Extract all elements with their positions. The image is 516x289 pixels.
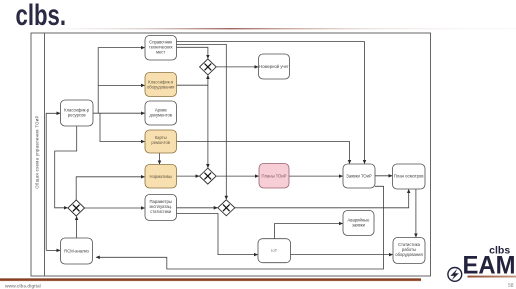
svg-text:оборудования: оборудования — [395, 252, 423, 257]
svg-text:EAM: EAM — [463, 251, 516, 279]
svg-text:оборудования: оборудования — [147, 85, 175, 90]
svg-text:документов: документов — [149, 113, 172, 118]
svg-text:ресурсов: ресурсов — [68, 113, 87, 118]
svg-text:ремонтов: ремонтов — [151, 140, 170, 145]
svg-text:Нормативы: Нормативы — [150, 174, 172, 179]
svg-text:мест: мест — [156, 50, 165, 55]
svg-text:Общая схема управления ТОиР: Общая схема управления ТОиР — [35, 115, 40, 189]
svg-text:Номерной учет: Номерной учет — [259, 64, 288, 69]
svg-text:IoT: IoT — [271, 248, 277, 253]
svg-text:Планы ТОиР: Планы ТОиР — [261, 173, 286, 178]
svg-text:Заявки ТОиР: Заявки ТОиР — [346, 174, 372, 179]
svg-text:www.clbs.digital: www.clbs.digital — [4, 284, 41, 289]
svg-text:RCM-анализ: RCM-анализ — [64, 249, 89, 254]
svg-text:План осмотров: План осмотров — [394, 174, 424, 179]
svg-text:статистики: статистики — [150, 209, 172, 214]
svg-text:заявки: заявки — [352, 223, 366, 228]
svg-text:58: 58 — [508, 283, 514, 289]
svg-text:clbs.: clbs. — [16, 0, 67, 32]
